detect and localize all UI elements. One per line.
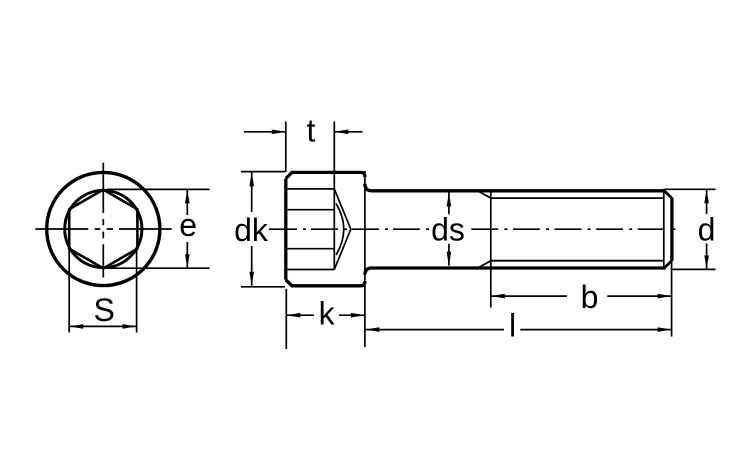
dimension l line and arrows	[365, 327, 671, 332]
socket depth line	[333, 122, 335, 270]
dimension S line and arrows	[69, 324, 136, 329]
front view vertical centerline	[102, 163, 104, 278]
dimension d line and arrows	[704, 189, 709, 269]
shank top outline with fillet	[365, 184, 666, 191]
front view horizontal centerline	[35, 228, 171, 230]
dimension t arrows	[244, 130, 363, 135]
thread runout diagonals	[478, 191, 491, 268]
socket cone V	[334, 189, 351, 270]
dimension S extension lines	[69, 249, 136, 333]
dimension b right extension line	[671, 262, 673, 337]
dimension d extension lines	[664, 189, 716, 269]
dimension dk line and arrows	[249, 172, 254, 285]
svg-text:S: S	[94, 292, 115, 328]
shank bottom outline with fillet	[365, 268, 666, 275]
end chamfer circle line	[663, 192, 665, 267]
socket cone arc	[336, 204, 344, 256]
svg-text:l: l	[509, 307, 516, 343]
svg-text:b: b	[581, 279, 599, 315]
side view axis centerline	[269, 228, 675, 230]
socket hex edge lines	[287, 189, 334, 270]
svg-text:t: t	[307, 112, 316, 148]
screw end face	[670, 198, 673, 261]
end chamfer diagonals	[664, 191, 672, 268]
thread runout extension line	[490, 191, 492, 308]
dimension t extension line	[285, 122, 287, 173]
thread minor diameter lines	[491, 198, 664, 261]
dimension e line and arrows	[185, 189, 190, 268]
front view socket chamfer circle	[65, 190, 142, 267]
front view head outer circle	[47, 172, 160, 285]
head right face line	[364, 171, 366, 347]
head left face	[284, 179, 287, 280]
head top outline with corner	[286, 172, 365, 178]
front view hex socket	[69, 190, 137, 269]
dimension b line and arrows	[491, 294, 672, 299]
svg-text:e: e	[179, 207, 197, 243]
dimension ds arrows	[447, 193, 452, 266]
svg-text:k: k	[319, 296, 336, 332]
dimension k extension line	[285, 289, 287, 349]
dimension k line and arrows	[286, 313, 365, 318]
dimension dk extension lines	[241, 172, 285, 287]
svg-text:ds: ds	[431, 212, 465, 248]
head bottom outline with corner	[286, 280, 365, 286]
svg-text:d: d	[698, 212, 716, 248]
dimension e extension lines	[107, 189, 210, 268]
svg-text:dk: dk	[234, 212, 269, 248]
